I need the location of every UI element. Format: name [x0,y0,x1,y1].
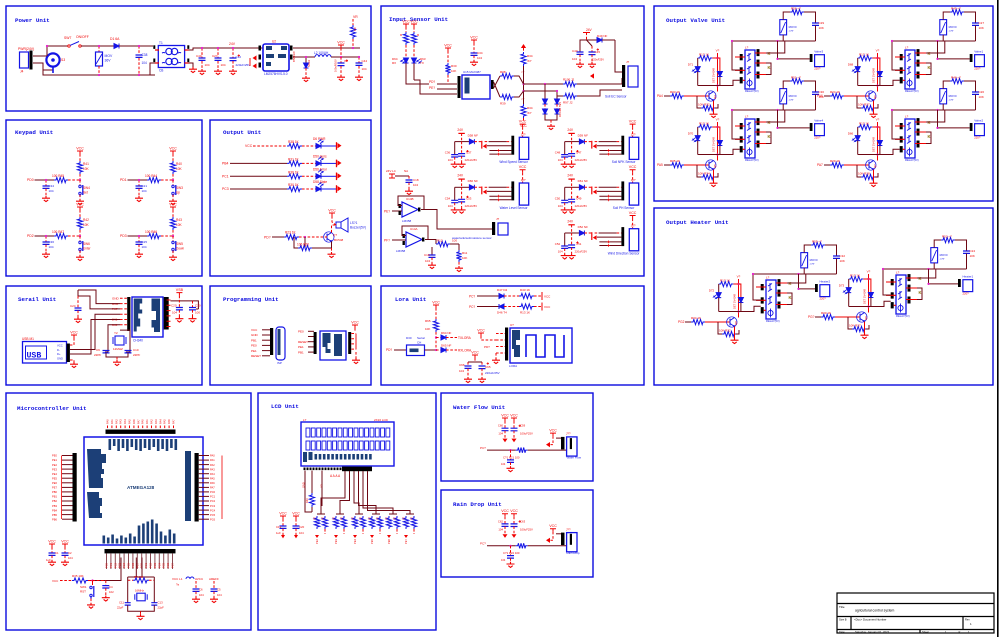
pin bars U21 left [900,54,903,60]
wire cathode rail PG2 [719,306,761,311]
pin header J2? Wind Direction Sensor [621,227,624,246]
svg-text:100uF/16V: 100uF/16V [334,59,338,72]
svg-text:J?: J? [496,217,500,221]
wire snubber bottom rail U27 [803,268,805,274]
wire contact net vertical U19 [777,41,779,59]
svg-text:VCC: VCC [61,539,69,543]
svg-text:PA2: PA2 [114,419,118,424]
resistor R22 100 [516,543,528,548]
svg-text:104: 104 [172,311,177,315]
wire to connector Valve1 [938,58,970,60]
wire XI XO to crystal [108,325,120,352]
LED D71 [697,58,699,67]
resistor pair PE3 [336,513,344,515]
wire switch to diode D1 [81,45,114,47]
resistor R23 1K [284,234,299,239]
svg-text:C48: C48 [555,151,561,155]
diode D66 NF [469,185,474,190]
svg-text:PC1: PC1 [222,175,229,179]
svg-text:B5819W: B5819W [292,51,296,62]
wire snubber bottom rail U21 [942,35,944,41]
svg-text:PD?: PD? [484,345,490,349]
svg-text:PWR(24V): PWR(24V) [18,47,34,51]
svg-text:Soil PH Sensor: Soil PH Sensor [613,206,636,210]
svg-text:PC2: PC2 [210,499,216,503]
svg-text:CH: CH [417,341,421,345]
wire cathode rail PA5 [698,149,740,154]
resistor R39 cross bottom [494,76,500,88]
svg-text:VCC L1: VCC L1 [172,577,183,581]
arrows U2 left [253,55,257,60]
svg-text:100 R44: 100 R44 [145,174,157,178]
svg-text:104: 104 [459,369,464,373]
svg-text:V?: V? [716,49,720,53]
svg-text:C27: C27 [979,21,985,25]
capacitor C11 22pF [125,603,131,605]
right label bus line [221,456,223,520]
varistor snubber U27 [801,253,808,268]
svg-text:DET 1N4148: DET 1N4148 [872,136,876,152]
svg-text:D61 NF: D61 NF [578,179,589,183]
svg-text:Y2: Y2 [114,331,118,335]
wire coil high U19 [732,42,740,70]
wire bias mid [523,66,525,104]
wire feed row Soil PH Sensor [565,186,580,188]
varistor snubber U21 [940,20,947,35]
svg-text:L2 100UH: L2 100UH [314,51,329,55]
junction dots power rails [98,45,100,47]
transistor Q9 BC548 [860,313,865,322]
pin stubs T1 [153,45,155,49]
svg-text:L?: L? [905,46,909,50]
pin header J4 [30,51,33,70]
wire collector to V+ Q9 [868,274,870,313]
wire to connector Heater2 [799,288,816,290]
svg-text:PE0: PE0 [298,330,304,334]
svg-text:D47 D4: D47 D4 [497,288,508,292]
wire PC? row right [528,449,567,451]
wire R35 to base [684,164,709,166]
resistor R27 10K [857,96,861,108]
pin header valve conn Heater1 [958,279,961,287]
pin stubs U27 right red [776,283,787,305]
resistor R47 [54,233,68,238]
svg-text:C24: C24 [970,249,976,253]
capacitor C26 snubber [964,81,976,92]
svg-text:PA6: PA6 [210,481,215,485]
svg-text:PC2: PC2 [149,562,153,568]
resistor R40 3B vertical [311,471,313,494]
svg-text:R17 1K: R17 1K [859,122,869,126]
wire resistor to LED [302,145,316,147]
svg-text:PE1: PE1 [298,345,304,349]
svg-text:PE7: PE7 [52,486,57,490]
connector Heater1 [963,280,973,292]
svg-text:104: 104 [413,183,418,187]
svg-text:of: of [958,630,960,634]
pin stubs U20 left red [735,126,745,149]
diode D2 B5819W [304,63,309,68]
svg-text:PA0: PA0 [141,419,145,424]
svg-text:PA6: PA6 [167,419,171,424]
svg-text:R40: R40 [176,162,182,166]
svg-text:10K R37: 10K R37 [849,324,861,328]
svg-text:PG2: PG2 [678,320,685,324]
wire coil high U26 [883,270,891,295]
svg-text:220uF25V: 220uF25V [465,204,478,208]
capacitor C9 22PF [105,351,108,353]
wire bottom rail [43,70,155,75]
capacitor C25 [138,236,140,242]
svg-text:VCC: VCC [410,19,418,23]
svg-text:R31 1K: R31 1K [288,157,300,161]
svg-text:PC3: PC3 [210,504,216,508]
svg-text:PC1: PC1 [210,495,216,499]
svg-text:R56 <7: R56 <7 [791,7,801,11]
left pin labels and wires [62,455,73,457]
transistor Q3 BC548 [327,233,332,242]
svg-text:PE1: PE1 [251,349,257,353]
connector soil moisture [498,223,508,235]
wire snubber bottom rail U22 [942,104,944,110]
svg-text:R29 1K: R29 1K [830,159,840,163]
switch SW6 Enter [79,236,81,241]
svg-text:Valve4: Valve4 [814,118,823,122]
svg-text:D49 NF: D49 NF [597,34,608,38]
resistor pair PE7 [406,513,414,515]
wire PD0 input [35,179,55,181]
svg-text:VCC: VCC [57,344,63,348]
svg-text:C21: C21 [142,184,148,188]
svg-text:VCC: VCC [444,43,452,47]
resistor R35 1K [670,162,684,167]
wire feed row Water Level Sensor [455,186,470,188]
diode D59 NF [579,139,584,144]
wire contact net vertical U27 [798,274,800,289]
svg-text:104: 104 [217,593,222,597]
wire PG2 to R34 [685,321,691,323]
svg-text:104: 104 [142,61,148,65]
connector J2? Water Level Sensor [519,183,528,205]
resistor pair PE2 [317,513,325,515]
svg-text:C4: C4 [109,585,113,589]
connector Valve2 [975,124,985,136]
diode D26 1N4148 [869,279,871,293]
svg-text:V?: V? [876,49,880,53]
unit box Microcontroller Unit [6,393,251,630]
diode D61 NF [579,185,584,190]
svg-text:VCC: VCC [169,202,177,206]
port marker Water Level Sensor [481,187,483,195]
svg-text:104: 104 [362,67,367,71]
svg-text:<7?: <7? [949,98,954,102]
diode D47 row1 [499,294,504,299]
svg-text:C?1 R22 100: C?1 R22 100 [503,551,520,555]
svg-text:Heater1: Heater1 [963,274,974,278]
svg-text:104: 104 [448,158,453,162]
pin header U17 [505,328,508,361]
svg-text:Q8: Q8 [734,321,738,325]
svg-text:PE6: PE6 [52,481,57,485]
svg-text:LM358: LM358 [396,249,406,253]
svg-text:VCC: VCC [477,328,485,332]
svg-text:104: 104 [572,57,577,61]
unit box Output Valve Unit [654,6,993,201]
svg-text:PA4: PA4 [123,419,127,424]
wire PE6 to opamp1 [392,210,402,212]
svg-text:220uF25V: 220uF25V [575,250,588,254]
svg-text:Enter: Enter [83,247,92,251]
capacitor C10b [192,301,194,308]
svg-text:D56 Error: D56 Error [313,167,328,171]
ground R11 [458,262,460,266]
wire contact K1 net U19 [766,41,785,53]
svg-text:Water Flow: Water Flow [567,455,582,459]
svg-text:U14B: U14B [406,197,414,201]
wire PC1 to resistor [230,175,287,177]
wire bus to max487 [437,83,457,85]
varistor snubber U26 [931,248,938,263]
svg-text:C36: C36 [49,240,55,244]
IC right pin-name block [185,451,191,521]
svg-text:C10: C10 [195,304,201,308]
wire rows Wind Direction Sensor [595,232,599,234]
pin marks Wind Direction Sensor [607,241,610,247]
pin header J5 [270,328,273,355]
ground C34 [42,196,50,202]
svg-text:PC?: PC? [480,446,486,450]
svg-text:C5: C5 [217,588,221,592]
wire contact K1 net U20 [766,110,785,122]
svg-text:10K: 10K [462,256,467,260]
wire to pullup column [161,179,173,181]
pin header valve conn Valve3 [810,54,813,62]
wire J13 top to switch [47,46,68,56]
capacitor C63 100uF25V [511,524,518,527]
svg-text:R34: R34 [527,54,533,58]
svg-text:PE?: PE? [429,86,435,90]
svg-text:PA6: PA6 [817,94,823,98]
power VCC decouple 1 [49,544,55,547]
wire contact net vertical U26 [928,269,930,284]
ground SW5 [172,251,174,256]
capacitor C27 [217,48,219,58]
resistor R38 cross top [494,82,500,97]
svg-text:PD?: PD? [386,348,392,352]
svg-text:220?: 220? [820,297,827,301]
svg-text:PA7: PA7 [210,486,215,490]
svg-text:R38 1K: R38 1K [288,140,300,144]
wire PC? row right [528,545,567,547]
svg-text:PB4: PB4 [222,162,229,166]
svg-text:Output Heater Unit: Output Heater Unit [666,219,729,226]
wire rows Soil NPK Sensor [595,141,599,143]
svg-text:<7: <7 [521,70,525,74]
power VCC Water Flow A [502,418,508,421]
resistor R45 [54,177,68,182]
svg-text:D43 1K: D43 1K [520,288,530,292]
svg-text:C62: C62 [498,519,504,523]
svg-text:PC1: PC1 [109,562,113,568]
pin stubs U21 left red [895,57,905,80]
connector J2? Wind Speed Sensor [519,137,528,159]
diode D21 1N4148 [718,58,720,72]
svg-text:C54: C54 [445,196,451,200]
svg-text:VCC: VCC [70,330,78,334]
wire rows Water Level Sensor [485,186,489,188]
capacitor C21 [138,180,140,186]
LED D73 [848,279,850,288]
transistor Q5 BC548 [709,161,714,170]
svg-text:D64 NF: D64 NF [441,331,452,335]
svg-text:VCC: VCC [328,208,336,212]
wire LED to arrow [321,145,336,147]
svg-text:J2?: J2? [521,132,526,136]
pin stubs opamp2 [403,234,405,238]
svg-text:J2?: J2? [631,178,636,182]
svg-text:Q5: Q5 [713,164,717,168]
svg-text:SW5: SW5 [176,242,183,246]
svg-text:R35 10K: R35 10K [72,574,84,578]
svg-text:PA3: PA3 [154,419,158,424]
svg-text:C26: C26 [979,90,985,94]
pin bars U21 right [917,49,920,56]
wire R24 to base [844,95,869,97]
capacitor C65 220uF [481,362,483,366]
svg-text:PC?: PC? [469,305,475,309]
svg-text:/K7: /K7 [527,111,532,115]
svg-text:D65 NF: D65 NF [441,344,452,348]
resistor R33 1K [670,93,684,98]
resistor R55 snubber [804,245,811,253]
capacitor C30 snubber [804,81,816,92]
svg-text:C1: C1 [55,551,59,555]
svg-text:PD0: PD0 [27,178,34,182]
wire to connector Heater1 [929,283,959,285]
power VCC lcd 1 [280,516,286,519]
LED D50 Gprs [316,161,321,166]
svg-text:R11: R11 [462,251,468,255]
resistor R51 snubber [783,81,790,89]
svg-text:Valve2: Valve2 [974,118,983,122]
resistor pair PE5 [372,513,380,515]
svg-text:J2?: J2? [521,178,526,182]
ground C50 [561,208,569,214]
svg-text:LM2576HVS-5.0: LM2576HVS-5.0 [264,72,288,76]
pin header U3 left [127,297,130,331]
connector J2? Soil NPK Sensor [629,137,638,159]
IC top pin-name bars [109,439,112,450]
wire PC6 diode row1 [477,295,499,297]
svg-text:C66: C66 [459,363,465,367]
power VCC lora caps [472,355,478,358]
pin header J2? Water Level Sensor [511,181,514,200]
svg-text:/K7: /K7 [527,59,532,63]
svg-text:C59: C59 [520,424,526,428]
unit box Output Unit [210,120,371,276]
svg-text:Output Unit: Output Unit [223,129,261,136]
power VCC buzzer [329,213,335,216]
wire ISP stubs [262,329,270,331]
svg-text:22PF: 22PF [94,353,101,357]
resistor R28 10K [857,165,861,177]
wire PD3 input [128,235,148,237]
wire contact net vertical U21 [937,41,939,59]
wire contact net vertical U22 [937,110,939,128]
svg-text:104: 104 [49,189,54,193]
svg-text:PF?: PF? [384,239,390,243]
svg-text:C49: C49 [576,196,582,200]
svg-text:Programming Unit: Programming Unit [223,296,279,303]
ground C36 [451,162,459,168]
svg-text:VCC: VCC [76,146,84,150]
svg-text:PB2: PB2 [52,499,57,503]
svg-text:10K: 10K [83,167,90,171]
svg-text:PB4: PB4 [52,508,57,512]
svg-text:Buzzer(5V): Buzzer(5V) [350,226,366,230]
switch SW5 Down [172,236,174,241]
pin stubs U22 right red [915,122,926,144]
wire T1 out top rail [189,48,264,50]
wire R65 to diodes [435,332,437,350]
wire feed row Wind Speed Sensor [455,141,470,143]
wire PD2 input [35,235,55,237]
svg-text:106 R20: 106 R20 [297,243,309,247]
resistor R28 vertical [405,27,407,32]
resistor R29 vertical [413,27,415,32]
svg-text:220?: 220? [974,136,981,140]
switch SW1 RST [92,581,94,586]
resistor R21 100 [516,448,528,453]
IC bottom pin-name bars [103,536,106,544]
svg-text:Q9: Q9 [864,316,868,320]
svg-text:Keypad Unit: Keypad Unit [15,129,53,136]
svg-text:C36: C36 [445,151,451,155]
svg-text:agricultural control system: agricultural control system [855,609,895,613]
svg-text:C52: C52 [555,242,561,246]
LED D63 TX [413,45,415,58]
ground protection [550,120,552,124]
svg-text:C?1 R21 100: C?1 R21 100 [503,456,520,460]
svg-text:AVCC: AVCC [195,577,204,581]
svg-text:PA7: PA7 [136,419,140,424]
ground SW4 [79,195,81,200]
resistor R41 10K [77,161,82,174]
svg-text:PC?: PC? [480,542,486,546]
svg-text:R30 1K: R30 1K [288,183,300,187]
svg-text:DET 1N4148: DET 1N4148 [863,288,867,304]
wire contact K1 net U22 [926,110,945,122]
wire to connector Valve2 [938,127,970,129]
capacitor C24 snubber [955,240,967,251]
wire contact row3 U20 [766,132,771,144]
ground C52 [561,253,569,259]
svg-text:<7?: <7? [810,262,815,266]
wire contact K1 net U26 [917,269,936,278]
svg-text:24V L4: 24V L4 [386,169,396,173]
capacitor C45 soil ec [591,46,593,52]
svg-text:24V: 24V [567,219,574,223]
wire U3 D+ D- routes [70,314,120,349]
wire A B lines to protection [524,83,546,85]
wire PA5 to R35 [664,164,670,166]
VCC rail [338,45,344,48]
ground C37 [458,162,466,168]
svg-text:220uF/25V: 220uF/25V [236,63,251,67]
svg-text:VCC: VCC [169,146,177,150]
svg-text:C38: C38 [142,53,148,57]
wire U2 output [293,57,306,63]
